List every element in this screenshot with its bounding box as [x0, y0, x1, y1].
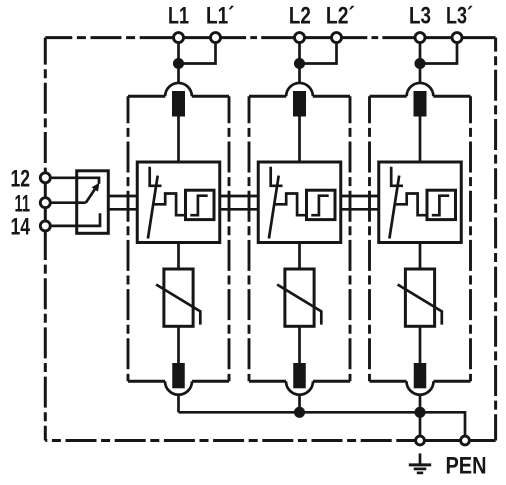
svg-text:12: 12 [11, 166, 31, 193]
svg-text:L3: L3 [409, 2, 431, 29]
svg-text:L1: L1 [168, 2, 189, 29]
svg-text:PEN: PEN [446, 453, 487, 480]
svg-text:L2´: L2´ [326, 2, 355, 29]
svg-text:L1´: L1´ [206, 2, 235, 29]
svg-text:14: 14 [11, 214, 31, 241]
svg-text:L2: L2 [289, 2, 311, 29]
svg-text:L3´: L3´ [446, 2, 473, 29]
